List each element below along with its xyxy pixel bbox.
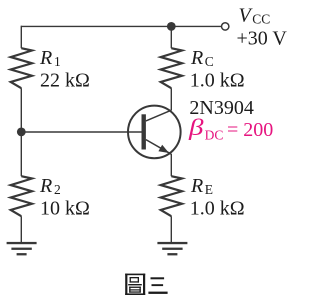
label R1 bbox=[39, 47, 61, 69]
svg-text:1: 1 bbox=[54, 54, 61, 69]
resistor RE bbox=[161, 176, 182, 216]
wire emitter column bottom bbox=[170, 216, 172, 242]
svg-text:22 kΩ: 22 kΩ bbox=[40, 70, 90, 92]
wire top horizontal VCC rail bbox=[21, 25, 221, 27]
terminal VCC open circle bbox=[222, 23, 229, 30]
svg-text:R: R bbox=[39, 47, 52, 69]
caption character SAN (three) bbox=[148, 277, 167, 294]
transistor Q1 circle bbox=[128, 106, 181, 159]
ground right bbox=[157, 242, 187, 256]
svg-text:CC: CC bbox=[252, 12, 270, 27]
node junction dot base divider bbox=[17, 127, 26, 136]
caption character TU (figure) bbox=[125, 274, 145, 295]
svg-text:2: 2 bbox=[54, 182, 61, 197]
wire left column top bbox=[20, 26, 22, 49]
label RE bbox=[190, 175, 213, 197]
svg-text:DC: DC bbox=[205, 127, 224, 142]
label beta DC = 200 bbox=[188, 115, 274, 143]
svg-text:= 200: = 200 bbox=[227, 119, 273, 141]
node junction dot top (VCC rail to RC) bbox=[167, 22, 176, 31]
svg-text:C: C bbox=[205, 54, 214, 69]
wire left column middle bbox=[20, 88, 22, 176]
ground left bbox=[7, 242, 37, 256]
svg-text:R: R bbox=[39, 175, 52, 197]
svg-text:E: E bbox=[205, 182, 213, 197]
svg-text:R: R bbox=[190, 47, 203, 69]
label VCC bbox=[239, 4, 271, 26]
transistor Q1 collector lead bbox=[146, 110, 171, 121]
transistor Q1 emitter lead with arrow bbox=[146, 140, 171, 155]
svg-text:1.0 kΩ: 1.0 kΩ bbox=[190, 198, 245, 220]
wire emitter vertical bbox=[170, 154, 172, 176]
svg-text:β: β bbox=[188, 115, 204, 140]
label RC bbox=[190, 47, 214, 69]
wire collector vertical bbox=[170, 88, 172, 110]
svg-text:+30 V: +30 V bbox=[237, 28, 288, 50]
svg-text:1.0 kΩ: 1.0 kΩ bbox=[190, 70, 245, 92]
resistor R1 bbox=[11, 48, 32, 88]
wire right column top (VCC to RC) bbox=[170, 26, 172, 48]
label R2 bbox=[39, 175, 61, 197]
resistor R2 bbox=[11, 176, 32, 216]
resistor RC bbox=[161, 48, 182, 88]
transistor Q1 base bar bbox=[142, 114, 146, 149]
svg-text:10 kΩ: 10 kΩ bbox=[40, 198, 90, 220]
wire left column bottom bbox=[20, 216, 22, 242]
svg-text:V: V bbox=[239, 4, 254, 26]
wire base from divider to transistor bbox=[21, 131, 141, 133]
svg-text:R: R bbox=[190, 175, 203, 197]
